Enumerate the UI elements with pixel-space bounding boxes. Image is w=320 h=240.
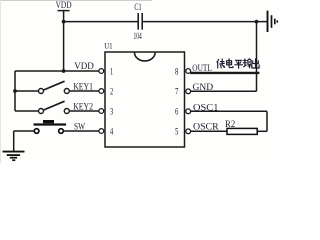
wire ground drop (bottom-left) <box>13 131 15 152</box>
ground (rotated, top-right) <box>268 11 278 32</box>
wire SW row right stub <box>64 130 99 132</box>
wire VDD row to pin 1 <box>15 70 99 72</box>
pushbutton SW <box>34 120 67 133</box>
svg-text:7: 7 <box>175 88 179 98</box>
svg-text:OSCR: OSCR <box>193 122 219 133</box>
node junction at VDD stem and top rail <box>62 20 66 24</box>
wire OUTL row (pin 8, with label underline) <box>190 72 259 74</box>
node junction left bus / KEY1 row <box>13 89 17 93</box>
svg-text:4: 4 <box>110 127 113 137</box>
wire KEY1 row left stub <box>15 90 39 92</box>
平 <box>235 60 243 68</box>
svg-text:U1: U1 <box>104 40 112 50</box>
pin 8 circle <box>186 69 191 74</box>
wire KEY2 row left stub <box>15 110 39 112</box>
ground (earth, bottom-left) <box>3 152 25 161</box>
svg-text:GND: GND <box>193 82 214 93</box>
wire right vertical (top rail to GND pin wire) <box>256 22 258 92</box>
power symbol VDD (top-left) <box>58 11 70 71</box>
pin 1 circle <box>99 69 104 74</box>
svg-text:KEY2: KEY2 <box>73 101 93 112</box>
svg-text:OSC1: OSC1 <box>193 102 218 113</box>
resistor R2 <box>227 128 257 134</box>
wire KEY1 row right stub <box>69 90 99 92</box>
wire top rail right of C1 <box>143 21 267 23</box>
svg-text:6: 6 <box>175 108 179 118</box>
wire KEY2 row right stub <box>69 110 99 112</box>
wire OSC1 row (pin 6) <box>191 110 267 112</box>
wire right vertical OSC1 to R2 <box>266 111 268 131</box>
pin 2 circle <box>99 89 104 94</box>
annotation 低电平输出 (drawn glyphs) <box>217 59 259 68</box>
pin 3 circle <box>99 109 104 114</box>
wire left bus vertical <box>14 71 16 111</box>
svg-text:R2: R2 <box>225 119 235 130</box>
IC notch <box>135 53 156 61</box>
node junction VDD stem on pin1 wire <box>62 69 66 73</box>
svg-text:104: 104 <box>134 31 142 42</box>
svg-text:VDD: VDD <box>74 61 94 72</box>
wire GND row (pin 7) <box>191 90 257 92</box>
svg-text:KEY1: KEY1 <box>73 81 93 92</box>
wire top rail left of C1 <box>64 21 138 23</box>
pin 5 circle <box>186 129 191 134</box>
pin 6 circle <box>186 109 191 114</box>
wire R2 right stub <box>257 130 267 132</box>
svg-text:C1: C1 <box>134 2 141 13</box>
node junction top rail to right vertical <box>255 20 259 24</box>
输 <box>243 59 251 68</box>
svg-text:OUTL: OUTL <box>192 63 212 74</box>
svg-text:3: 3 <box>110 107 113 117</box>
switch KEY2 <box>39 101 70 113</box>
电 <box>227 59 233 68</box>
svg-text:2: 2 <box>110 87 113 97</box>
svg-text:5: 5 <box>175 128 179 138</box>
wire OSCR row (pin 5 to R2) <box>191 130 227 132</box>
faint page border <box>0 1 2 164</box>
capacitor C1 <box>138 13 142 30</box>
wire SW row left stub (to ground) <box>14 130 35 132</box>
svg-text:8: 8 <box>175 67 179 77</box>
出 <box>252 59 259 68</box>
svg-text:SW: SW <box>74 121 86 132</box>
switch KEY1 <box>39 81 70 93</box>
svg-text:1: 1 <box>110 67 113 77</box>
svg-text:VDD: VDD <box>56 1 72 11</box>
op IC U1 body <box>105 52 185 147</box>
低 <box>217 59 225 68</box>
pin 4 circle <box>99 129 104 134</box>
pin 7 circle <box>186 89 191 94</box>
